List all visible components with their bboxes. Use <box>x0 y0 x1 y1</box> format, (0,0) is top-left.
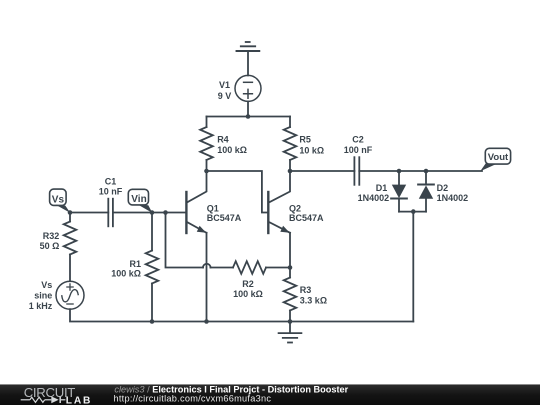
wire Q1 collector to Q2 base <box>207 171 268 213</box>
voltage source V1 <box>235 75 261 101</box>
wire diode common to bottom rail <box>412 212 414 322</box>
node D1 top <box>397 169 402 174</box>
svg-text:LAB: LAB <box>66 395 92 405</box>
svg-text:100 kΩ: 100 kΩ <box>111 269 141 279</box>
svg-text:50 Ω: 50 Ω <box>40 241 60 251</box>
svg-text:R32: R32 <box>43 231 60 241</box>
node D2 top <box>424 169 429 174</box>
node feedback tap <box>163 210 168 215</box>
svg-text:100 kΩ: 100 kΩ <box>233 289 263 299</box>
svg-text:D2: D2 <box>437 183 449 193</box>
transistor Q1 <box>186 171 206 233</box>
logo glyph wire-resistor-diode <box>21 396 66 403</box>
ground (bottom, below R3) <box>279 322 302 343</box>
node R3 bottom / ground <box>288 319 293 324</box>
wire Q1 emitter down <box>206 233 208 322</box>
wire Vs node to C1 <box>70 212 108 214</box>
svg-text:Q1: Q1 <box>207 203 219 213</box>
svg-text:100 nF: 100 nF <box>344 145 373 155</box>
svg-text:Vs: Vs <box>52 194 65 205</box>
svg-text:R4: R4 <box>217 135 229 145</box>
svg-text:R3: R3 <box>300 285 312 295</box>
wire Q2 emitter down <box>289 233 291 268</box>
capacitor C2 <box>354 157 359 185</box>
svg-text:10 kΩ: 10 kΩ <box>299 145 324 155</box>
node Q1 collector / R4 <box>204 169 209 174</box>
wire V1 bottom to rail <box>247 101 249 116</box>
svg-text:1 kHz: 1 kHz <box>29 301 53 311</box>
node Vin / R1 top <box>150 210 155 215</box>
svg-text:3.3 kΩ: 3.3 kΩ <box>300 296 327 306</box>
svg-text:10 nF: 10 nF <box>99 186 123 196</box>
svg-text:http://circuitlab.com/cvxm66mu: http://circuitlab.com/cvxm66mufa3nc <box>114 394 272 404</box>
svg-text:Vout: Vout <box>488 152 509 163</box>
svg-text:R5: R5 <box>299 135 311 145</box>
diode D2 <box>418 171 434 212</box>
ground (top, above V1) <box>237 42 260 75</box>
label box Vout <box>480 148 510 171</box>
svg-text:Vin: Vin <box>131 194 146 205</box>
resistor R2 <box>211 261 291 274</box>
resistor R3 <box>284 268 297 322</box>
svg-text:R2: R2 <box>242 279 254 289</box>
capacitor C1 <box>108 199 113 227</box>
wire C1 to Q1 base <box>113 212 185 214</box>
svg-text:1N4002: 1N4002 <box>358 193 390 203</box>
svg-text:sine: sine <box>34 291 52 301</box>
resistor R32 <box>64 213 77 282</box>
wire output rail C2 to Vout <box>359 170 482 172</box>
wire hop over Q1 emitter <box>203 264 211 268</box>
node Q1 emitter bottom <box>204 319 209 324</box>
svg-text:BC547A: BC547A <box>207 213 242 223</box>
label box Vs <box>50 189 71 213</box>
svg-text:Q2: Q2 <box>289 203 301 213</box>
svg-text:R1: R1 <box>129 259 141 269</box>
wire output rail R5 to C2 <box>290 170 354 172</box>
svg-text:100 kΩ: 100 kΩ <box>217 145 247 155</box>
wire sine source to bottom rail <box>70 309 152 321</box>
node diode common <box>411 209 416 214</box>
svg-text:1N4002: 1N4002 <box>437 193 469 203</box>
svg-text:C2: C2 <box>352 135 364 145</box>
wire bottom rail <box>152 321 413 323</box>
svg-text:C1: C1 <box>105 176 117 186</box>
node V1-rail junction <box>246 114 251 119</box>
node R1 bottom <box>150 319 155 324</box>
svg-text:9 V: 9 V <box>218 91 232 101</box>
svg-text:V1: V1 <box>219 80 230 90</box>
wire feedback tap down to R2 row <box>166 213 204 268</box>
svg-text:Vs: Vs <box>41 280 52 290</box>
transistor Q2 <box>268 171 290 233</box>
node Vs <box>68 210 73 215</box>
source Vs sine <box>56 281 84 309</box>
svg-text:BC547A: BC547A <box>289 213 324 223</box>
wire diode common bottom <box>399 211 426 213</box>
diode D1 <box>391 171 407 212</box>
svg-text:D1: D1 <box>376 183 388 193</box>
node R2 / R3 / Q2 emitter <box>288 265 293 270</box>
resistor R5 <box>284 117 297 172</box>
wire V+ rail <box>207 116 291 118</box>
resistor R1 <box>146 213 159 322</box>
node Q2 collector / R5 <box>288 169 293 174</box>
resistor R4 <box>200 117 213 172</box>
label box Vin <box>128 189 152 213</box>
